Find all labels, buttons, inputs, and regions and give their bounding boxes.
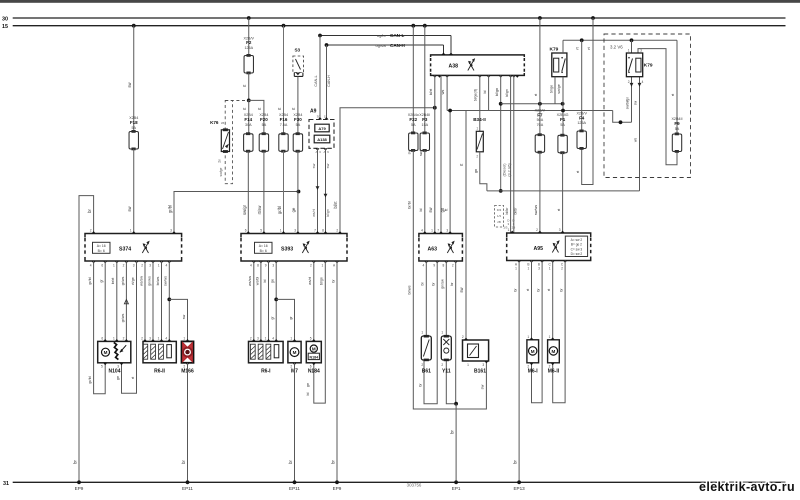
svg-text:F2: F2 <box>246 40 252 45</box>
svg-text:3: 3 <box>446 229 448 233</box>
module A79 <box>315 124 329 132</box>
svg-text:9: 9 <box>265 264 267 268</box>
svg-text:6: 6 <box>101 336 103 340</box>
svg-text:3: 3 <box>559 228 561 232</box>
svg-text:Y11: Y11 <box>442 369 451 375</box>
svg-text:sw/gr: sw/gr <box>242 204 247 215</box>
A63 bottom pins <box>424 261 428 263</box>
wire S374 to R6-II pin3 <box>152 261 154 341</box>
svg-text:ge: ge <box>291 207 296 212</box>
svg-text:br: br <box>449 430 454 434</box>
svg-text:rt/sw: rt/sw <box>257 205 262 215</box>
svg-text:1: 1 <box>183 336 185 340</box>
junction A38 pin1 column <box>433 106 437 110</box>
svg-text:F4: F4 <box>579 115 585 120</box>
svg-text:br/ge: br/ge <box>549 85 553 93</box>
wire bus30 to F4 loop <box>582 18 593 185</box>
svg-text:CAN-L: CAN-L <box>390 33 404 38</box>
svg-text:bl/ge(rt): bl/ge(rt) <box>473 89 477 101</box>
svg-text:4: 4 <box>90 264 92 268</box>
svg-text:3: 3 <box>149 264 151 268</box>
wire S374 to R6-II pin4 and M166 <box>168 261 170 341</box>
wire A38 pin to H-rail <box>446 75 448 110</box>
svg-text:EP11: EP11 <box>289 486 300 491</box>
ground EP9 mid <box>335 480 339 484</box>
actuator motor N184 <box>306 341 321 362</box>
K79 left coil wire <box>554 77 556 104</box>
wire M6-II return <box>553 261 565 403</box>
A38 top pins <box>441 53 445 55</box>
svg-text:30: 30 <box>2 16 8 22</box>
svg-text:4: 4 <box>166 264 168 268</box>
svg-text:A95: A95 <box>533 246 543 252</box>
wire M7 to EP11 <box>294 363 296 483</box>
svg-text:F7: F7 <box>537 112 543 117</box>
wire K79L pin b to F1 <box>562 77 564 136</box>
svg-text:A79: A79 <box>318 126 326 131</box>
svg-text:1: 1 <box>508 228 510 232</box>
svg-text:3: 3 <box>257 336 259 340</box>
svg-text:K79: K79 <box>550 47 559 53</box>
svg-text:303756: 303756 <box>407 482 422 487</box>
ground EP13 <box>517 480 521 484</box>
svg-text:4: 4 <box>421 229 423 233</box>
wire bus15 to F16 <box>283 26 285 134</box>
svg-text:bl/gn: bl/gn <box>326 209 330 217</box>
svg-text:8: 8 <box>443 264 445 268</box>
resistor pack R6-II <box>143 341 176 362</box>
svg-text:br/rt: br/rt <box>111 278 115 285</box>
svg-text:F16: F16 <box>280 117 288 122</box>
svg-text:1: 1 <box>528 267 530 271</box>
wire A38 pins to A95 pin1 pair <box>510 75 512 233</box>
svg-text:1: 1 <box>158 264 160 268</box>
svg-text:3: 3 <box>294 229 296 233</box>
wire F30 to S393 pin4 <box>297 151 299 233</box>
CAN-L line <box>320 35 451 37</box>
svg-text:gr/bl: gr/bl <box>88 376 92 383</box>
svg-text:CAN-H: CAN-H <box>327 75 331 87</box>
control unit A38 <box>431 55 525 76</box>
valve Y11 <box>441 336 451 360</box>
wire H-rail to B161 pin2 <box>465 111 467 340</box>
svg-text:sw: sw <box>481 384 485 389</box>
wire A38 pin to H-rail 2 <box>488 75 490 110</box>
relay K79 right <box>626 53 642 77</box>
wire rail corner to F9 top <box>676 40 678 134</box>
wire ground riser EP1 <box>455 404 457 483</box>
svg-text:F14: F14 <box>244 117 252 122</box>
svg-text:ge: ge <box>306 383 310 387</box>
svg-text:br: br <box>330 460 335 464</box>
svg-text:N104: N104 <box>109 369 121 375</box>
top frame bar <box>0 0 800 3</box>
bus 15 <box>13 25 786 27</box>
wire bus30 to F2 <box>248 18 250 55</box>
svg-text:ws: ws <box>441 90 445 95</box>
wire A95 to EP13 <box>518 261 520 483</box>
wire rail into K79R pin1 <box>631 40 633 53</box>
svg-text:M6-I: M6-I <box>528 369 539 375</box>
svg-text:2: 2 <box>336 229 338 233</box>
svg-text:A63: A63 <box>427 246 437 252</box>
svg-text:CAN-H: CAN-H <box>390 43 405 48</box>
svg-text:R6-II: R6-II <box>154 369 165 375</box>
svg-text:sw/ws: sw/ws <box>534 205 538 215</box>
svg-text:4: 4 <box>423 264 425 268</box>
svg-text:1: 1 <box>130 229 132 233</box>
svg-text:1: 1 <box>628 49 630 53</box>
wire A63 to Y11 <box>445 261 447 336</box>
svg-text:2: 2 <box>421 363 423 367</box>
svg-text:gn: gn <box>474 169 478 173</box>
svg-text:bl/gn: bl/gn <box>320 277 324 285</box>
bus 30 <box>13 17 786 19</box>
svg-text:gr/ws: gr/ws <box>121 276 125 285</box>
junction on bus 15 for F3 <box>423 24 427 28</box>
blower motor N104 <box>98 341 131 362</box>
svg-text:sw/ws: sw/ws <box>164 276 168 286</box>
svg-text:EP1: EP1 <box>452 486 461 491</box>
svg-text:7: 7 <box>437 229 439 233</box>
svg-text:br: br <box>73 460 78 464</box>
svg-text:5A: 5A <box>560 123 565 127</box>
wire S374 pin3 riser <box>174 192 299 234</box>
svg-text:gn/ws: gn/ws <box>147 276 151 286</box>
wire CAN-H to A9 <box>326 45 328 120</box>
svg-text:bl: bl <box>419 208 423 211</box>
svg-text:3.2 V6: 3.2 V6 <box>610 45 623 50</box>
svg-text:1/3: 1/3 <box>497 214 501 218</box>
svg-text:F1: F1 <box>560 117 566 122</box>
wire junction to F14 <box>248 100 250 133</box>
wire A38 pin to B34-II <box>479 75 481 131</box>
svg-text:EP9: EP9 <box>333 486 342 491</box>
wire F1 to A95 pin3 <box>562 153 564 233</box>
svg-text:1: 1 <box>467 363 469 367</box>
wire Y11 ground loop <box>446 261 455 404</box>
svg-text:7.5A: 7.5A <box>280 123 288 127</box>
svg-text:1: 1 <box>280 229 282 233</box>
svg-text:bl: bl <box>306 392 310 395</box>
svg-text:1: 1 <box>158 336 160 340</box>
svg-text:30A: 30A <box>245 123 252 127</box>
svg-text:sw/ge: sw/ge <box>219 167 223 176</box>
A63 top pins <box>423 231 427 233</box>
svg-text:va: va <box>221 121 225 125</box>
svg-text:9: 9 <box>433 264 435 268</box>
svg-text:rt: rt <box>131 377 135 379</box>
module A138 <box>314 135 330 143</box>
svg-text:F30: F30 <box>294 117 302 122</box>
svg-text:gr/bl: gr/bl <box>88 277 92 284</box>
svg-text:bl/rt: bl/rt <box>333 201 338 209</box>
svg-text:EP9: EP9 <box>75 486 84 491</box>
svg-text:bl/br: bl/br <box>514 207 518 215</box>
junction on bus 15 for F16 <box>282 24 286 28</box>
svg-text:2: 2 <box>310 264 312 268</box>
svg-text:og/br: og/br <box>377 33 387 38</box>
svg-text:K79: K79 <box>644 63 653 69</box>
svg-text:2: 2 <box>536 228 538 232</box>
svg-text:N184: N184 <box>310 355 319 359</box>
svg-text:sw/bl/gn: sw/bl/gn <box>626 97 630 110</box>
svg-text:2x: 2x <box>217 159 221 163</box>
svg-text:bl/br: bl/br <box>505 207 509 215</box>
svg-text:br: br <box>512 460 517 464</box>
svg-text:1: 1 <box>515 267 517 271</box>
svg-text:8: 8 <box>322 229 324 233</box>
svg-text:2B: 2B <box>497 220 501 224</box>
wire A63 to B61 return loop <box>424 261 437 404</box>
svg-text:F22: F22 <box>409 117 417 122</box>
svg-text:2: 2 <box>123 336 125 340</box>
svg-text:ws/sw: ws/sw <box>248 276 252 286</box>
wire B34-II to H-rail191 <box>480 152 487 191</box>
relay K76 contact <box>221 130 229 152</box>
connector arrow Y1 <box>316 186 320 190</box>
svg-text:elektrik-avto.ru: elektrik-avto.ru <box>699 480 795 494</box>
svg-text:bl: bl <box>421 282 425 285</box>
wire rail to F4 top <box>581 40 583 131</box>
svg-text:F3: F3 <box>422 117 428 122</box>
flap motor M6-I <box>527 340 539 363</box>
wire S393 to R6-I pin1 <box>268 261 270 341</box>
svg-text:2: 2 <box>141 336 143 340</box>
svg-text:5A: 5A <box>411 123 416 127</box>
svg-text:1: 1 <box>113 264 115 268</box>
wire S374 to N104 pin6 <box>104 261 106 341</box>
ground EP11 mid <box>293 480 297 484</box>
H-rail191 to K79 right <box>487 190 640 192</box>
wire S374 to N104 pin3 loop <box>122 261 137 393</box>
svg-text:B= ge 2: B= ge 2 <box>571 243 582 247</box>
svg-text:R6-I: R6-I <box>261 369 271 375</box>
ground EP9 left <box>77 480 81 484</box>
A38 bottom pins <box>433 75 437 77</box>
svg-text:70A: 70A <box>537 123 544 127</box>
control unit A95 <box>507 233 591 261</box>
wire F16 to S393 <box>283 151 285 233</box>
wire K79R pin3 to F9 bottom <box>638 49 677 165</box>
svg-text:A9: A9 <box>310 109 317 115</box>
svg-text:A= sw 2: A= sw 2 <box>571 238 583 242</box>
svg-text:2B: 2B <box>512 226 516 230</box>
junction on bus 15 for F22 <box>411 24 415 28</box>
svg-text:1: 1 <box>421 330 423 334</box>
svg-text:2: 2 <box>250 336 252 340</box>
svg-text:ws/rt: ws/rt <box>312 209 316 217</box>
svg-text:5: 5 <box>260 229 262 233</box>
svg-text:br: br <box>288 460 293 464</box>
svg-text:M: M <box>293 350 297 355</box>
bus 31 (ground) <box>13 481 786 483</box>
wire junction to F20 <box>249 100 264 133</box>
svg-text:A: A <box>323 150 325 154</box>
wire A9 pin3 to S393 <box>315 148 319 150</box>
svg-text:F9: F9 <box>674 121 680 126</box>
svg-text:br/ws: br/ws <box>407 285 411 294</box>
wire A63 to B61 <box>425 261 427 336</box>
svg-text:M: M <box>551 349 555 354</box>
svg-text:S3: S3 <box>294 48 300 53</box>
svg-text:sw/ge: sw/ge <box>557 84 561 93</box>
svg-text:3: 3 <box>482 363 484 367</box>
svg-text:B= 6: B= 6 <box>98 249 105 253</box>
wire S393 to R6-I pin2 <box>253 261 255 341</box>
svg-text:2: 2 <box>141 264 143 268</box>
wire F18 to S374 pin2 <box>133 149 135 234</box>
ground EP11 left <box>186 480 190 484</box>
svg-text:3: 3 <box>133 264 135 268</box>
svg-text:4: 4 <box>250 264 252 268</box>
wire S393 to N184 loop <box>314 261 326 403</box>
svg-text:D/3: D/3 <box>497 208 502 212</box>
svg-text:31: 31 <box>3 481 9 487</box>
svg-text:3: 3 <box>640 49 642 53</box>
svg-text:5: 5 <box>310 336 312 340</box>
junction F2 output <box>247 99 251 103</box>
wire A38 pin to A63 (ws) <box>440 75 442 233</box>
svg-text:1: 1 <box>441 330 443 334</box>
svg-text:7: 7 <box>314 229 316 233</box>
wire A95 to M6-I <box>531 261 533 340</box>
wire S393 ground to EP9 <box>336 261 338 482</box>
wire A9 pin9 to S393 <box>323 148 327 150</box>
S393 top pins <box>246 231 250 233</box>
svg-text:1: 1 <box>527 335 529 339</box>
H-rail y110 <box>447 110 613 112</box>
svg-text:4: 4 <box>642 80 644 84</box>
svg-text:3: 3 <box>272 264 274 268</box>
A95 top pins <box>510 231 514 233</box>
svg-text:4: 4 <box>165 336 167 340</box>
svg-text:C= sw 3: C= sw 3 <box>571 247 583 251</box>
wire ground bridge S374 <box>79 196 94 483</box>
svg-text:S374: S374 <box>119 246 131 252</box>
svg-text:A: A <box>315 150 317 154</box>
svg-text:EP13: EP13 <box>513 486 525 491</box>
svg-text:1: 1 <box>476 126 478 130</box>
wire M166 to EP11 <box>187 363 189 483</box>
wire S374 to N104 pin1 <box>116 261 118 341</box>
wire CAN-L to A9 <box>319 36 321 120</box>
H-rail y110 right corner <box>613 111 632 123</box>
svg-text:4: 4 <box>272 336 274 340</box>
svg-text:(Diesel): (Diesel) <box>502 163 506 177</box>
junction on bus 15 for F18 <box>132 24 136 28</box>
wire S393 to R6-I pin4 and M7 <box>275 261 277 341</box>
junction on bus 30 for F7 <box>538 16 542 20</box>
svg-text:1: 1 <box>431 229 433 233</box>
variant box 3.2 V6 <box>604 34 691 178</box>
wire H-rail to A63 pin <box>449 111 451 234</box>
svg-text:2: 2 <box>90 229 92 233</box>
svg-text:5A: 5A <box>131 126 136 130</box>
svg-text:gr/bl: gr/bl <box>168 205 173 213</box>
wire S393 pin7 to A38 pin1 column <box>340 108 435 234</box>
wire K79R pin4 to H-rail191 <box>639 77 641 191</box>
svg-text:1: 1 <box>322 264 324 268</box>
svg-text:2: 2 <box>452 264 454 268</box>
svg-text:B= 6: B= 6 <box>260 249 267 253</box>
svg-text:ws/rt: ws/rt <box>308 277 312 285</box>
junction on bus 30 for F2 <box>247 16 251 20</box>
S393 bottom pins <box>252 261 256 263</box>
svg-text:2: 2 <box>462 335 464 339</box>
svg-text:50A: 50A <box>537 118 544 122</box>
connector arrow Y2 <box>324 194 328 198</box>
wire K79R pin2 <box>631 77 633 123</box>
svg-text:B61: B61 <box>422 369 431 375</box>
wire A38 pin to A63 (bl/rt) <box>434 75 436 233</box>
svg-text:ge: ge <box>271 279 275 283</box>
wire F7 to A95 pin2 <box>539 152 541 233</box>
svg-text:ge: ge <box>116 376 120 380</box>
wire bus15 to F18 <box>133 26 135 132</box>
svg-text:8: 8 <box>257 264 259 268</box>
svg-text:1: 1 <box>549 267 551 271</box>
svg-text:3: 3 <box>170 229 172 233</box>
ground EP1 <box>454 480 458 484</box>
svg-text:ws/sw: ws/sw <box>139 276 143 286</box>
A95 bottom pins <box>517 261 521 263</box>
control unit A63 <box>419 234 463 262</box>
svg-text:A= 16: A= 16 <box>97 244 106 248</box>
svg-text:125A: 125A <box>244 46 253 50</box>
resistor pack R6-I <box>249 341 284 362</box>
svg-text:ws: ws <box>634 138 638 142</box>
wire F20 to S393 <box>263 151 265 233</box>
power rail y40 <box>563 39 677 41</box>
wire F14 to S393 <box>247 151 249 233</box>
svg-text:5A: 5A <box>262 123 267 127</box>
svg-text:5A: 5A <box>675 127 680 131</box>
svg-text:B161: B161 <box>474 369 486 375</box>
wire A95 to M6-II <box>552 261 554 340</box>
svg-text:F18: F18 <box>130 120 138 125</box>
svg-text:15: 15 <box>324 115 328 119</box>
wire M6-I return <box>532 261 543 403</box>
svg-text:D= sw 2: D= sw 2 <box>571 252 583 256</box>
svg-text:125A: 125A <box>577 121 586 125</box>
wire F3 to A63 pin1 <box>424 151 426 234</box>
svg-text:F20: F20 <box>260 117 268 122</box>
svg-text:6: 6 <box>245 229 247 233</box>
svg-text:bl: bl <box>263 279 267 282</box>
svg-text:rt/ge: rt/ge <box>131 277 135 284</box>
wire S393 to N184 pin5 <box>313 261 315 341</box>
svg-text:5A: 5A <box>296 123 301 127</box>
wire S374 to N104 pin5 loop <box>94 261 106 394</box>
svg-text:og/sw: og/sw <box>376 43 387 48</box>
svg-text:2: 2 <box>628 80 630 84</box>
sensor B161 <box>463 340 489 361</box>
svg-text:M: M <box>312 347 316 352</box>
control unit S393 <box>241 234 347 262</box>
wire bus15 to F3 <box>424 26 426 133</box>
svg-text:15: 15 <box>2 24 8 30</box>
sensor B61 <box>421 336 431 360</box>
svg-text:br/bl: br/bl <box>407 201 411 209</box>
wire S374 to R6-II pin2 <box>144 261 146 341</box>
wire F22 to B161 loop <box>413 151 486 410</box>
wire F2 to K76/F14 junction <box>248 73 250 100</box>
svg-text:6: 6 <box>101 264 103 268</box>
svg-text:2: 2 <box>123 264 125 268</box>
svg-text:sw: sw <box>634 100 638 105</box>
svg-text:2: 2 <box>441 363 443 367</box>
